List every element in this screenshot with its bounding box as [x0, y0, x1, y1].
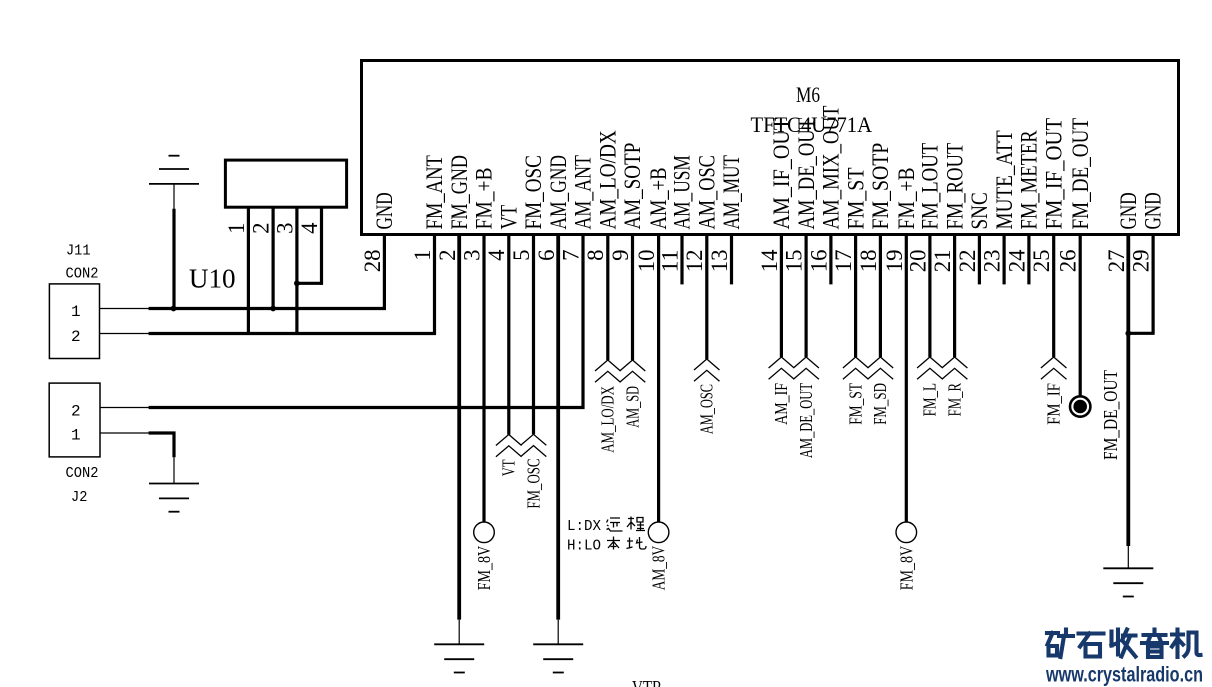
svg-text:15: 15: [782, 250, 807, 273]
svg-text:11: 11: [658, 250, 683, 273]
power node circle FM_8V (pin 3): [474, 522, 495, 543]
svg-text:3: 3: [272, 223, 297, 234]
ground symbol under J2 pin 1: [149, 483, 199, 485]
svg-text:20: 20: [905, 250, 930, 273]
wire J11 pin2 stub: [100, 333, 151, 335]
svg-text:FM_SOTP: FM_SOTP: [868, 143, 893, 230]
svg-text:1: 1: [224, 223, 249, 234]
pin 27 ground stem: [1127, 546, 1129, 568]
off-page chevron AM_OSC: [694, 359, 720, 381]
ground symbol under pin 6: [533, 643, 583, 645]
svg-text:AM_MUT: AM_MUT: [719, 155, 744, 229]
svg-text:SNC: SNC: [967, 192, 992, 229]
pin 26 wire FM_DE_OUT: [1079, 236, 1082, 397]
svg-text:FM_OSC: FM_OSC: [521, 155, 546, 229]
off-page chevron FM_R: [942, 357, 968, 379]
svg-text:L:DX: L:DX: [567, 518, 601, 535]
power node circle FM_8V (pin 19): [896, 522, 917, 543]
svg-text:1: 1: [71, 303, 81, 321]
svg-text:VTR: VTR: [632, 677, 662, 687]
pin 11 stub wire: [680, 236, 683, 284]
wire J2 pin1 vertical: [172, 432, 175, 458]
pin 27 wire GND: [1126, 236, 1130, 546]
svg-text:2: 2: [71, 403, 81, 421]
svg-text:FM_+B: FM_+B: [894, 168, 919, 230]
svg-text:AM_DE_OUT: AM_DE_OUT: [794, 118, 819, 230]
ground stem thin (top left): [173, 184, 175, 210]
watermark logo kuangshi shouyinji (crystal radio): [1047, 630, 1201, 658]
U10 pin4-pin3 elbow wire: [295, 282, 323, 285]
junction dot pin27/pin29: [1125, 330, 1131, 336]
connector symbol FM_DE_OUT (ring with dot): [1070, 396, 1090, 416]
pin 18 wire FM_SOTP: [879, 236, 882, 357]
pin 17 wire FM_ST: [854, 236, 857, 357]
pin 13 stub wire: [730, 236, 733, 284]
svg-text:FM_L: FM_L: [920, 383, 940, 416]
svg-text:AM_IF_OUT: AM_IF_OUT: [769, 118, 794, 230]
svg-text:2: 2: [71, 328, 81, 346]
svg-text:FM_OSC: FM_OSC: [523, 459, 543, 509]
pin 10 wire AM_+B: [657, 236, 660, 522]
svg-text:12: 12: [682, 250, 707, 273]
svg-text:28: 28: [360, 250, 385, 273]
svg-text:FM_ST: FM_ST: [843, 168, 868, 230]
svg-text:H:LO: H:LO: [567, 537, 601, 554]
svg-text:10: 10: [634, 250, 659, 273]
annotation chinese bendi: [607, 537, 620, 550]
svg-text:AM_USM: AM_USM: [670, 155, 695, 229]
U10 pin 3 wire: [295, 207, 298, 335]
connector J2 box: [49, 383, 100, 457]
pin 23 stub wire: [1002, 236, 1005, 284]
pin 16 stub wire: [829, 236, 832, 284]
wire AM_ANT bus row: [149, 406, 585, 409]
svg-text:FM_+B: FM_+B: [472, 168, 497, 230]
svg-text:AM_MIX_OUT: AM_MIX_OUT: [819, 106, 844, 230]
pin 19 wire FM_+B: [905, 236, 908, 522]
svg-text:VT: VT: [499, 459, 519, 476]
svg-text:5: 5: [509, 250, 534, 261]
IC U-M6 box (TFTC4U771A): [362, 61, 1179, 235]
svg-text:GND: GND: [1141, 192, 1166, 229]
svg-text:www.crystalradio.cn: www.crystalradio.cn: [1045, 664, 1203, 687]
svg-text:FM_8V: FM_8V: [896, 546, 916, 591]
svg-text:13: 13: [707, 250, 732, 273]
junction dot U10 pin3/pin4: [294, 280, 300, 286]
svg-text:FM_ANT: FM_ANT: [422, 155, 447, 229]
svg-text:FM_IF_OUT: FM_IF_OUT: [1041, 118, 1066, 230]
svg-text:FM_LOUT: FM_LOUT: [918, 143, 943, 230]
pin 28 wire: [383, 236, 386, 310]
svg-text:1: 1: [71, 427, 81, 445]
wire FM_ANT bus row: [149, 332, 436, 335]
svg-text:J11: J11: [66, 244, 91, 260]
pin 6 wire AM_GND: [556, 236, 560, 620]
svg-text:21: 21: [930, 250, 955, 273]
J2 pin1 ground stem: [173, 457, 175, 483]
svg-text:VT: VT: [496, 205, 521, 230]
pin 22 stub wire: [978, 236, 981, 284]
svg-text:FM_GND: FM_GND: [447, 155, 472, 229]
U10 pin 2 wire: [272, 207, 275, 310]
ground stem wire (top left): [172, 209, 175, 310]
wire J2 pin1 stub: [100, 432, 151, 434]
svg-text:14: 14: [757, 249, 782, 272]
svg-text:FM_ST: FM_ST: [845, 383, 865, 425]
component U10 box: [225, 160, 346, 207]
off-page chevron FM_L: [917, 357, 943, 379]
svg-text:MUTE_ATT: MUTE_ATT: [992, 130, 1017, 229]
pin 1 wire: [433, 236, 436, 335]
svg-text:AM_OSC: AM_OSC: [694, 155, 719, 229]
U10 pin 4 wire: [320, 207, 323, 285]
svg-text:8: 8: [583, 250, 608, 261]
svg-text:17: 17: [831, 250, 856, 273]
off-page chevron AM_IF: [769, 357, 795, 379]
svg-text:AM_SOTP: AM_SOTP: [620, 143, 645, 230]
ground symbol bottom right: [1103, 567, 1153, 569]
svg-text:FM_8V: FM_8V: [474, 546, 494, 591]
off-page chevron VT: [496, 435, 522, 457]
inverted ground symbol top left: [149, 183, 199, 185]
svg-text:FM_IF: FM_IF: [1043, 383, 1063, 425]
svg-text:AM_LO/DX: AM_LO/DX: [598, 386, 618, 453]
svg-text:J2: J2: [71, 490, 87, 506]
svg-text:AM_LO/DX: AM_LO/DX: [595, 130, 620, 230]
svg-text:26: 26: [1056, 250, 1081, 273]
off-page chevron FM_ST: [843, 357, 869, 379]
svg-text:AM_+B: AM_+B: [646, 168, 671, 230]
junction dot GND bus / ground stem: [171, 306, 177, 312]
svg-text:2: 2: [435, 250, 460, 261]
svg-text:23: 23: [980, 250, 1005, 273]
pin 25 wire FM_IF_OUT: [1052, 236, 1055, 357]
svg-text:4: 4: [297, 222, 322, 234]
off-page chevron FM_IF: [1041, 357, 1067, 379]
pin 12 wire AM_OSC: [705, 236, 708, 359]
pin 6 ground stem: [557, 620, 559, 645]
pin 24 stub wire: [1027, 236, 1030, 284]
power node circle AM_8V (pin 10): [648, 522, 669, 543]
junction dot GND bus / U10 pin2: [270, 306, 276, 312]
off-page chevron FM_SD: [868, 357, 894, 379]
svg-text:CON2: CON2: [66, 466, 99, 482]
svg-text:4: 4: [484, 249, 509, 261]
pin 4 wire VT: [507, 236, 510, 435]
svg-text:AM_OSC: AM_OSC: [697, 384, 717, 434]
off-page chevron AM_DE_OUT: [793, 357, 819, 379]
svg-text:29: 29: [1129, 250, 1154, 273]
pin 7 wire AM_ANT: [581, 236, 584, 409]
svg-text:AM_GND: AM_GND: [546, 155, 571, 229]
svg-text:FM_ROUT: FM_ROUT: [942, 143, 967, 230]
pin 8 wire AM_LO/DX: [606, 236, 609, 360]
svg-text:FM_R: FM_R: [944, 383, 964, 417]
svg-text:3: 3: [460, 250, 485, 261]
svg-text:2: 2: [249, 223, 274, 234]
svg-text:7: 7: [559, 250, 584, 261]
svg-text:FM_DE_OUT: FM_DE_OUT: [1068, 118, 1093, 230]
svg-text:GND: GND: [372, 192, 397, 229]
svg-text:CON2: CON2: [66, 266, 99, 282]
svg-text:AM_IF: AM_IF: [771, 383, 791, 425]
svg-text:U10: U10: [189, 263, 236, 293]
off-page chevron AM_LO/DX: [595, 360, 621, 382]
off-page chevron AM_SD: [620, 360, 646, 382]
pin 2 ground stem: [458, 620, 460, 645]
svg-text:FM_METER: FM_METER: [1017, 130, 1042, 230]
pin 29 wire GND: [1151, 236, 1154, 333]
svg-text:AM_ANT: AM_ANT: [571, 155, 596, 229]
svg-text:1: 1: [410, 250, 435, 261]
off-page chevron FM_OSC: [521, 434, 547, 456]
pin 20 wire FM_LOUT: [928, 236, 931, 357]
wire J2 pin2 stub: [100, 407, 151, 409]
pin 14 wire AM_IF_OUT: [780, 236, 783, 357]
svg-text:16: 16: [806, 250, 831, 273]
svg-text:FM_DE_OUT: FM_DE_OUT: [1100, 370, 1122, 460]
ground symbol under pin 2: [434, 643, 484, 645]
wire GND bus row: [149, 307, 386, 310]
pin 9 wire AM_SOTP: [631, 236, 634, 360]
wire J2 pin1 elbow: [149, 431, 176, 434]
connector J11 box: [49, 284, 99, 359]
svg-text:19: 19: [882, 250, 907, 273]
svg-text:FM_SD: FM_SD: [870, 383, 890, 425]
pin 21 wire FM_ROUT: [953, 236, 956, 357]
svg-text:AM_8V: AM_8V: [649, 546, 669, 591]
pin 15 wire AM_DE_OUT: [804, 236, 807, 357]
svg-text:GND: GND: [1116, 192, 1141, 229]
pin 29 elbow wire: [1127, 332, 1155, 335]
svg-text:AM_DE_OUT: AM_DE_OUT: [796, 383, 816, 458]
annotation chinese yuancheng: [607, 518, 623, 531]
svg-text:18: 18: [856, 250, 881, 273]
svg-text:6: 6: [534, 250, 559, 261]
svg-text:22: 22: [955, 250, 980, 273]
svg-text:27: 27: [1104, 250, 1129, 273]
svg-text:AM_SD: AM_SD: [622, 386, 642, 428]
U10 pin 1 wire: [247, 207, 250, 335]
pin 2 wire FM_GND: [457, 236, 461, 620]
pin 5 wire FM_OSC: [532, 236, 535, 434]
svg-text:24: 24: [1004, 249, 1029, 272]
svg-text:25: 25: [1029, 250, 1054, 273]
svg-text:9: 9: [608, 250, 633, 261]
wire J11 pin1 stub: [100, 308, 151, 310]
svg-text:M6: M6: [796, 82, 820, 107]
pin 3 wire FM_+B: [482, 236, 485, 522]
